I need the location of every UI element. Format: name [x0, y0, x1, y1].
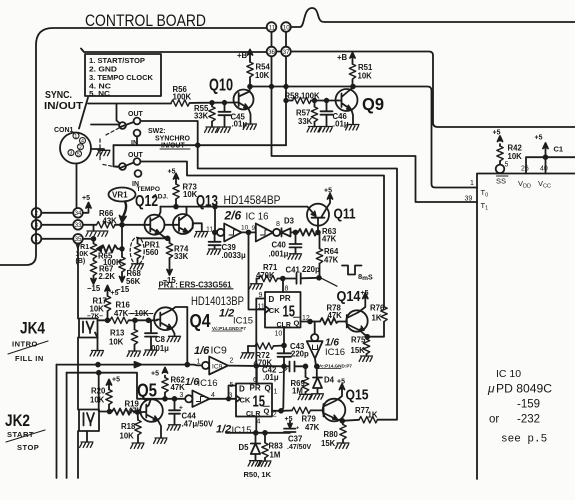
svg-text:.0033μ: .0033μ	[222, 251, 247, 260]
svg-text:1/2: 1/2	[219, 308, 234, 320]
svg-text:3: 3	[69, 151, 72, 157]
wire Q12 base junction vertical	[121, 225, 123, 257]
inverter IC16c	[180, 377, 218, 399]
svg-text:10: 10	[275, 331, 283, 338]
svg-text:100K: 100K	[173, 93, 192, 102]
svg-text:R50, 1K: R50, 1K	[244, 470, 272, 479]
svg-text:10K: 10K	[120, 432, 135, 441]
transistor Q14	[346, 310, 367, 331]
transistor Q5	[140, 399, 163, 422]
transistor Q4	[154, 307, 177, 330]
svg-text:3: 3	[180, 392, 184, 399]
svg-text:PD 8049C: PD 8049C	[496, 384, 552, 396]
svg-text:INTRO: INTRO	[12, 340, 38, 349]
wire node36 vertical and to pin 39	[272, 56, 478, 202]
svg-text:Q: Q	[294, 319, 300, 328]
svg-text:1/2: 1/2	[216, 424, 231, 436]
svg-text:+5: +5	[535, 135, 543, 142]
svg-text:HD14013BP: HD14013BP	[191, 294, 244, 308]
svg-text:+5: +5	[151, 371, 159, 378]
svg-text:SW2:: SW2:	[148, 128, 166, 135]
junction node36 bus	[270, 85, 274, 89]
svg-text:.47μ/50V: .47μ/50V	[182, 420, 214, 429]
inverter IC16d down	[314, 322, 316, 334]
svg-text:C40: C40	[272, 241, 287, 250]
transistor Q10	[234, 90, 254, 110]
capacitor C46	[321, 101, 333, 127]
svg-text:5: 5	[230, 382, 234, 389]
junction R54 bus	[248, 85, 252, 89]
resistor R16	[106, 318, 110, 322]
resistor R76	[381, 307, 387, 322]
svg-text:+5: +5	[168, 169, 176, 176]
svg-text:33K: 33K	[298, 117, 313, 126]
wire CON1 to switch pole	[91, 124, 119, 126]
svg-text:C1: C1	[554, 145, 564, 154]
node 1	[32, 234, 42, 244]
pin 2 wire Qbar	[272, 410, 281, 412]
resistor R73	[175, 199, 177, 207]
resistor R62	[164, 393, 166, 399]
svg-text:33K: 33K	[194, 112, 209, 121]
capacitor C8	[145, 320, 157, 350]
ground C40	[288, 254, 301, 259]
diode D5	[251, 433, 260, 461]
transistor Q11	[307, 204, 329, 226]
svg-text:CON1: CON1	[54, 127, 74, 134]
node 35	[73, 234, 83, 244]
ground C44	[167, 425, 180, 430]
svg-text:Q4: Q4	[190, 311, 211, 331]
capacitor C41	[283, 273, 319, 283]
svg-text:R83: R83	[269, 442, 284, 451]
flipflop IC15a	[265, 292, 301, 328]
ground R18	[131, 443, 144, 448]
svg-text:10K: 10K	[76, 251, 89, 258]
wire reset net	[226, 432, 290, 434]
svg-text:1: 1	[35, 236, 39, 243]
pin SS bubble	[496, 165, 505, 174]
resistor R78	[320, 318, 347, 325]
resistor R13	[134, 320, 136, 329]
svg-text:10K: 10K	[508, 152, 523, 161]
variable resistor label VR1 oval	[109, 188, 136, 202]
IC10 chip outline	[477, 174, 575, 480]
wire Q5 collector line	[163, 398, 185, 400]
label 1/2 IC15b	[216, 424, 254, 437]
pin 11 wire CK	[249, 232, 266, 309]
svg-text:11: 11	[258, 304, 265, 311]
svg-text:Q: Q	[265, 384, 271, 393]
wire CON1 to node 34	[76, 164, 78, 208]
pin 12 wire Q	[301, 321, 321, 323]
resistor R69	[304, 364, 308, 368]
svg-text:1M: 1M	[270, 451, 281, 460]
svg-text:47K: 47K	[171, 383, 186, 392]
svg-text:-159: -159	[517, 399, 540, 411]
svg-text:R20: R20	[91, 387, 106, 396]
svg-text:10K: 10K	[255, 71, 270, 80]
svg-text:D3: D3	[284, 217, 295, 226]
svg-text:IN/OUT: IN/OUT	[44, 100, 84, 112]
resistor R18	[137, 412, 140, 420]
svg-text:10K: 10K	[109, 338, 124, 347]
svg-text:PR: PR	[280, 294, 291, 303]
wire CON1 long vertical to JK4	[77, 243, 79, 478]
resistor R58	[286, 100, 293, 102]
svg-text:36: 36	[268, 49, 275, 56]
resistor R66	[97, 222, 116, 228]
svg-text:.47/50V: .47/50V	[287, 444, 311, 451]
capacitor C43	[278, 346, 292, 367]
ground D4	[310, 394, 323, 399]
resistor R17	[105, 286, 110, 292]
svg-text:1K: 1K	[368, 411, 378, 420]
svg-text:IC 16: IC 16	[246, 211, 269, 223]
switch SW2 row2	[119, 163, 126, 170]
resistor R75	[366, 337, 369, 339]
node 37	[281, 47, 291, 57]
svg-text:VR1: VR1	[112, 191, 128, 200]
inverter IC16a	[217, 229, 224, 236]
svg-text:IC9: IC9	[211, 345, 228, 357]
svg-text:CK: CK	[240, 396, 251, 405]
pin 8 wire PR	[282, 279, 284, 293]
node 33	[73, 220, 83, 230]
svg-text:Vc:P14,GND:P7: Vc:P14,GND:P7	[318, 364, 352, 369]
transistor Q13	[173, 214, 193, 234]
pin 10 wire CLR	[283, 328, 285, 346]
svg-text:5. NC: 5. NC	[89, 91, 110, 98]
resistor R71	[257, 278, 260, 280]
svg-text:FILL IN: FILL IN	[15, 354, 44, 363]
svg-text:D4: D4	[324, 376, 335, 385]
ground Q13 emitter	[194, 232, 207, 237]
resistor R83	[264, 433, 266, 443]
resistor R57	[314, 101, 316, 107]
wire IC9 out	[228, 365, 284, 368]
junction R51 collector	[351, 85, 355, 89]
svg-text:34: 34	[75, 210, 82, 217]
svg-text:SS: SS	[496, 177, 506, 186]
label IC10	[487, 368, 552, 446]
pulse 8mS annotation	[321, 278, 338, 286]
svg-text:R76: R76	[370, 304, 385, 313]
svg-text:+5: +5	[361, 290, 369, 297]
svg-text:μ: μ	[487, 382, 495, 396]
svg-text:47K: 47K	[324, 256, 339, 265]
supply +B at R54	[249, 53, 251, 61]
resistor R68	[119, 257, 125, 272]
wire D/PR vertical	[255, 299, 257, 384]
svg-text:1: 1	[274, 389, 278, 396]
svg-text:+B: +B	[337, 53, 348, 62]
ground at CON1	[91, 149, 104, 150]
transistor Q15	[323, 399, 346, 422]
svg-text:Q11: Q11	[334, 206, 356, 223]
svg-text:1: 1	[197, 359, 201, 366]
svg-text:Q14: Q14	[337, 289, 361, 305]
resistor R56	[171, 100, 190, 106]
ground C46	[319, 127, 332, 132]
svg-text:C37: C37	[288, 435, 302, 444]
ground R57	[307, 127, 320, 132]
resistor R79	[281, 410, 292, 412]
ground D5	[248, 461, 261, 466]
board border	[0, 28, 266, 265]
resistor R54	[249, 78, 251, 87]
svg-text:OUT: OUT	[128, 111, 144, 118]
inverter IC9	[194, 345, 227, 366]
resistor R80	[341, 421, 344, 425]
label SYNC IN/OUT	[44, 89, 84, 112]
wire inv1 to inv2	[242, 231, 256, 233]
svg-text:9: 9	[252, 225, 256, 232]
svg-text:2. GND: 2. GND	[89, 67, 117, 74]
svg-text:11: 11	[269, 24, 276, 31]
junction C45	[223, 101, 227, 105]
svg-text:43K: 43K	[103, 217, 118, 226]
svg-text:47K −10K−: 47K −10K−	[114, 309, 154, 318]
svg-text:1. START/STOP: 1. START/STOP	[89, 58, 145, 65]
svg-text:.001μ: .001μ	[269, 250, 289, 259]
svg-text:15K: 15K	[321, 439, 336, 448]
node 11	[267, 22, 277, 32]
svg-text:3: 3	[35, 222, 39, 229]
svg-text:40: 40	[540, 166, 548, 173]
capacitor C37	[284, 421, 296, 432]
capacitor C44	[169, 399, 180, 425]
resistor R72	[248, 345, 255, 347]
ground R13	[127, 351, 140, 356]
svg-text:1: 1	[74, 134, 77, 140]
capacitor C45	[219, 103, 231, 127]
svg-text:47K: 47K	[328, 311, 343, 320]
svg-text:2/6: 2/6	[224, 209, 242, 223]
pin 9 wire D	[256, 298, 265, 300]
resistor R74	[169, 238, 171, 243]
svg-text:+5: +5	[324, 188, 332, 195]
svg-text:39: 39	[465, 196, 473, 203]
ground R80	[336, 443, 349, 448]
wire node10 to node37	[285, 32, 287, 47]
capacitor C39	[209, 232, 221, 249]
transistor Q9	[336, 89, 358, 111]
svg-text:D: D	[239, 385, 245, 394]
svg-text:IC 10: IC 10	[496, 368, 521, 380]
svg-text:SYNCHRO: SYNCHRO	[155, 136, 191, 143]
svg-text:8: 8	[285, 286, 289, 293]
svg-text:Q9: Q9	[362, 94, 384, 114]
svg-text:2: 2	[273, 412, 277, 419]
svg-text:Q15: Q15	[346, 388, 369, 404]
svg-text:R75: R75	[351, 336, 366, 345]
capacitor C42	[284, 362, 306, 372]
wire OUT1 to L2	[140, 121, 397, 420]
svg-text:10K: 10K	[90, 396, 105, 405]
svg-text:Vċ:P14,GND:P7: Vċ:P14,GND:P7	[212, 326, 246, 331]
svg-text:Q: Q	[264, 407, 270, 416]
svg-text:JK2: JK2	[5, 411, 30, 430]
svg-text:4: 4	[81, 139, 84, 145]
label SW2 caption	[148, 128, 191, 150]
svg-text:2: 2	[79, 145, 82, 151]
svg-text:or: or	[489, 414, 499, 426]
switch SW2 row1	[119, 122, 126, 129]
resistor R19	[112, 409, 138, 415]
svg-text:470K: 470K	[256, 271, 275, 280]
ground on node33 line	[93, 225, 95, 231]
wire node37 vertical	[285, 56, 287, 145]
ground R83	[258, 461, 271, 466]
svg-text:−15: −15	[87, 284, 101, 293]
svg-text:2.2K: 2.2K	[99, 272, 116, 281]
wire collector bus y86.5 to pin T0	[250, 87, 477, 188]
ground Q5 emitter	[154, 438, 167, 443]
pin 6 wire PR	[256, 366, 258, 383]
diode D4	[313, 366, 322, 394]
connector CON1	[60, 133, 91, 164]
svg-text:37: 37	[283, 49, 290, 56]
svg-text:IC16: IC16	[198, 378, 218, 389]
resistor R64	[319, 232, 321, 248]
svg-text:6: 6	[253, 377, 257, 384]
resistor R63	[296, 229, 319, 236]
node 2	[32, 208, 42, 218]
ground R75	[359, 356, 372, 361]
svg-text:4: 4	[257, 419, 261, 426]
wire legend box to connector	[79, 98, 88, 129]
svg-text:47K: 47K	[322, 235, 337, 244]
svg-text:+5: +5	[337, 379, 345, 386]
wire node35 junction	[83, 238, 94, 240]
svg-text:560: 560	[146, 248, 160, 257]
wire OUT2 to L3	[140, 162, 384, 308]
svg-text:33K: 33K	[174, 252, 189, 261]
wire node33 to R66	[83, 224, 97, 226]
wire node11 to node36	[271, 32, 273, 47]
svg-text:IC16: IC16	[325, 347, 345, 358]
wire line1 start/stop signal	[57, 364, 203, 367]
svg-text:HD14584BP: HD14584BP	[224, 193, 281, 207]
svg-text:OUT: OUT	[128, 152, 144, 159]
node 10	[281, 22, 291, 32]
junction node37 bus	[284, 85, 288, 89]
svg-text:C8: C8	[155, 335, 166, 344]
svg-text:JK4: JK4	[20, 319, 45, 338]
resistor R67	[90, 261, 96, 276]
pin 4 wire CLR	[255, 417, 257, 433]
potentiometer VR1	[93, 239, 95, 244]
ground Q9 emitter	[346, 125, 359, 130]
svg-text:CLR: CLR	[246, 411, 260, 418]
wire inv to CK-b	[210, 398, 237, 400]
svg-text:11: 11	[206, 227, 213, 234]
svg-text:PR1 : ERS-C33G561: PR1 : ERS-C33G561	[159, 281, 233, 290]
svg-text:2: 2	[230, 358, 234, 365]
svg-text:3. TEMPO CLOCK: 3. TEMPO CLOCK	[89, 75, 153, 82]
resistor R42	[499, 161, 501, 165]
pin 26 Vdd	[526, 157, 575, 173]
ground PR1	[130, 264, 143, 269]
svg-text:+: +	[179, 405, 183, 412]
wire node3-33	[41, 224, 73, 226]
svg-text:5: 5	[77, 152, 80, 158]
wire JK2 tip	[99, 411, 112, 413]
svg-text:R80: R80	[324, 430, 339, 439]
svg-text:Q12: Q12	[135, 193, 158, 210]
svg-text:D: D	[269, 295, 275, 304]
wire sync line y51 to right edge	[81, 49, 575, 128]
svg-text:10: 10	[283, 24, 290, 31]
ground Q4 emitter	[167, 336, 180, 341]
ground R55	[205, 127, 218, 132]
flipflop IC15b	[236, 384, 272, 417]
jack JK4	[79, 319, 98, 338]
ground C8	[144, 350, 157, 355]
svg-text:+5: +5	[112, 377, 120, 384]
wire collector bus y206.6	[161, 206, 308, 208]
svg-text:5: 5	[505, 162, 509, 169]
svg-text:STOP: STOP	[17, 443, 39, 452]
svg-text:.01μ: .01μ	[263, 373, 279, 382]
ground JK4 sleeve	[90, 351, 103, 356]
wire node1-35	[41, 238, 73, 240]
photoresistor PR1	[138, 238, 168, 243]
node 34	[73, 208, 83, 218]
legend box	[85, 54, 161, 96]
svg-text:PR: PR	[250, 384, 261, 393]
svg-text:+5: +5	[111, 290, 119, 297]
svg-text:2: 2	[35, 210, 39, 217]
diode D3	[280, 228, 295, 236]
svg-text:TEMPO: TEMPO	[137, 186, 160, 193]
wire tempo clock y103.5	[88, 103, 171, 105]
svg-text:9: 9	[259, 292, 263, 299]
svg-text:R18: R18	[121, 422, 136, 431]
resistor R65 wiper	[96, 246, 101, 253]
svg-text:Q5: Q5	[137, 381, 157, 401]
junction R55	[210, 101, 214, 105]
supply +B at R51	[352, 56, 354, 62]
wire sync in y145	[114, 144, 287, 146]
svg-text:C41: C41	[286, 266, 301, 275]
ground R71	[249, 284, 262, 289]
svg-text:R13: R13	[110, 329, 125, 338]
svg-text:35: 35	[75, 236, 82, 243]
svg-text:+5: +5	[285, 416, 293, 423]
wire Q13 collector node to inverter	[215, 207, 217, 233]
svg-text:IC15: IC15	[233, 316, 253, 327]
pin 40 Vcc	[545, 157, 547, 173]
label TEMPO ADJ	[137, 186, 169, 201]
resistor R55	[211, 103, 213, 107]
svg-text:+: +	[296, 426, 299, 432]
svg-text:26: 26	[521, 166, 529, 173]
svg-text:CK: CK	[269, 306, 280, 315]
label 2/6 IC16	[224, 209, 269, 223]
svg-text:1/6: 1/6	[194, 345, 210, 357]
svg-text:220p: 220p	[291, 350, 309, 359]
svg-text:47K: 47K	[305, 423, 320, 432]
svg-text:Q10: Q10	[209, 75, 233, 95]
svg-text:15K: 15K	[351, 346, 366, 355]
svg-text:1K: 1K	[372, 314, 382, 323]
svg-text:+5: +5	[493, 130, 501, 137]
wire node2-34	[41, 212, 73, 214]
dashed coupling	[100, 128, 119, 168]
svg-text:IC15.: IC15.	[232, 425, 255, 436]
